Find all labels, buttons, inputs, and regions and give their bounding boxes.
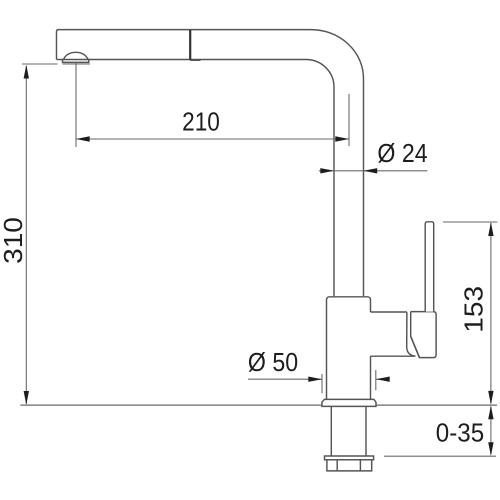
base flange bbox=[322, 399, 376, 406]
arrowheads bbox=[24, 65, 494, 456]
spout arm inner edge bbox=[89, 60, 335, 297]
Ø50 dimension line bbox=[248, 378, 322, 380]
svg-text:310: 310 bbox=[0, 217, 28, 264]
aerator base plate bbox=[63, 60, 89, 63]
handle lever bbox=[425, 222, 434, 312]
arrow 210 left bbox=[76, 136, 90, 141]
arrow Ø50 right (points left) bbox=[376, 377, 390, 382]
threaded shank right bbox=[365, 406, 367, 456]
threaded shank left bbox=[330, 406, 332, 456]
arrow 153 down bbox=[488, 391, 493, 405]
Ø24 dimension line bbox=[319, 170, 427, 172]
handle diagonal bbox=[411, 336, 420, 357]
arrow Ø24 left (points right) bbox=[320, 168, 334, 173]
nut facet lines bbox=[337, 460, 360, 471]
arrow 310 up bbox=[24, 65, 29, 79]
Ø50 ext tick right bbox=[375, 370, 377, 390]
spray head seat lip bbox=[190, 59, 200, 61]
arrow Ø50 left (points right) bbox=[308, 377, 322, 382]
body right edge lower bbox=[370, 356, 372, 399]
dimension lines bbox=[22, 63, 497, 457]
310 dimension line bbox=[25, 66, 27, 404]
valve boss top bbox=[371, 311, 407, 313]
svg-text:0-35: 0-35 bbox=[436, 419, 484, 448]
153 top ext line bbox=[443, 221, 497, 223]
arrow 310 down bbox=[24, 391, 29, 405]
svg-text:153: 153 bbox=[460, 286, 489, 333]
valve boss bottom bbox=[371, 355, 415, 357]
153 dimension line bbox=[490, 223, 492, 404]
svg-text:Ø 24: Ø 24 bbox=[377, 140, 427, 169]
nut body bbox=[327, 460, 372, 471]
ext line top left (310 top) bbox=[22, 63, 90, 65]
Ø50 ext tick left bbox=[321, 374, 323, 393]
arrow 153 up bbox=[488, 222, 493, 236]
210 dimension line bbox=[76, 138, 349, 140]
0-35 bottom ext line bbox=[384, 455, 496, 457]
spout arm bottom left segment bbox=[57, 59, 64, 61]
aerator dome bbox=[64, 52, 89, 59]
mounting surface line bbox=[20, 404, 497, 406]
dimension texts bbox=[0, 108, 488, 448]
svg-text:Ø 50: Ø 50 bbox=[248, 349, 298, 378]
cartridge separator bbox=[407, 312, 416, 356]
Ø50 right tail bbox=[376, 378, 389, 380]
spray head divider bbox=[189, 30, 191, 60]
0-35 dimension line bbox=[490, 407, 492, 455]
arrow Ø24 right (points left) bbox=[364, 168, 378, 173]
svg-text:210: 210 bbox=[182, 108, 220, 137]
spout arm outer edge bbox=[57, 30, 364, 296]
pipe centerline ext bbox=[348, 94, 350, 146]
nut top plate bbox=[325, 456, 374, 460]
aerator centerline bbox=[75, 63, 77, 148]
handle base bbox=[411, 312, 436, 358]
arrow 0-35 down bbox=[488, 442, 493, 456]
arrow 210 right bbox=[335, 136, 349, 141]
faucet body bbox=[327, 297, 371, 399]
arrow 0-35 up bbox=[488, 406, 493, 420]
